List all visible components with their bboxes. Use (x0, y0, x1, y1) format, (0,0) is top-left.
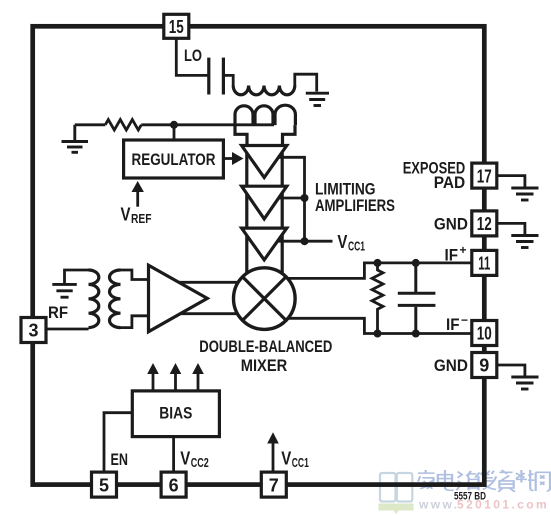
bias box (132, 391, 219, 437)
outer border (33, 26, 485, 484)
wire capacitor to primary winding (223, 75, 233, 85)
ground (pin 17) (511, 188, 538, 200)
inductor L1 primary winding (LO balun) (233, 86, 295, 95)
RF amplifier A4 (149, 265, 208, 332)
regulator U1 box (124, 140, 224, 178)
resistor R1 (105, 120, 141, 130)
svg-text:V: V (281, 449, 291, 469)
watermark book icon (380, 473, 412, 502)
svg-text:GND: GND (434, 356, 468, 375)
junction dot T3 tap (301, 237, 309, 245)
wire primary to ground (295, 74, 317, 91)
svg-text:9: 9 (479, 356, 489, 376)
bias output arrows (153, 370, 198, 391)
junction dots IF+ rail (374, 259, 382, 267)
pin 3 (21, 318, 46, 343)
BIAS wire VCC2 (172, 436, 175, 472)
svg-text:RF: RF (48, 303, 68, 322)
secondary winding outline to amplifier (235, 125, 295, 146)
junction dot T2 tap (301, 194, 309, 202)
wires RF secondary to amplifier (121, 270, 151, 328)
RF transformer primary winding (89, 270, 99, 328)
svg-text:MIXER: MIXER (241, 356, 288, 375)
ground (pin 9) (511, 377, 538, 389)
svg-text:6: 6 (169, 475, 179, 495)
pin 12 (472, 211, 497, 236)
wire resistor to transformer center tap (141, 123, 274, 126)
arrow regulator output to amplifier (223, 157, 235, 160)
pin 9 (472, 353, 497, 378)
RF transformer secondary winding (110, 270, 121, 328)
wire pin12 to ground (497, 223, 525, 234)
svg-text:IF: IF (445, 245, 459, 264)
svg-text:IF: IF (446, 315, 460, 334)
svg-text:5: 5 (99, 475, 109, 495)
pin 7 (261, 472, 286, 497)
junction node (regulator tap) (170, 121, 178, 129)
svg-text:−: − (461, 313, 468, 327)
capacitor C2 (IF load) (398, 263, 436, 334)
svg-text:11: 11 (478, 254, 490, 274)
mixer X (243, 277, 287, 321)
amplifier rails (247, 144, 282, 275)
tap T3 to VCC1 (272, 240, 333, 243)
svg-text:REF: REF (131, 212, 152, 226)
tap T1 to vcc line (270, 157, 305, 241)
watermark chinese text 家电维修资料网 (418, 470, 550, 492)
wire pin3 to RF transformer (44, 328, 89, 331)
wire pin15 to capacitor (176, 36, 208, 75)
pin 6 (161, 472, 186, 497)
watermark book base (379, 504, 414, 515)
limiting amplifier A1 (242, 146, 287, 178)
svg-text:LO: LO (184, 46, 202, 65)
ground (RF input) (52, 284, 77, 297)
limiting amplifier A3 (242, 228, 287, 260)
wire junction to regulator (173, 125, 176, 141)
wire pin9 to ground (497, 365, 525, 376)
svg-text:V: V (121, 205, 131, 225)
wire ground to resistor (75, 123, 106, 126)
svg-text:17: 17 (477, 166, 492, 186)
mixer circle (233, 268, 295, 330)
svg-text:LIMITING: LIMITING (315, 181, 376, 199)
pin 15 (164, 14, 189, 38)
wire pin17 to ground (497, 176, 525, 187)
svg-text:V: V (180, 449, 190, 469)
pin 17 (472, 163, 497, 188)
capacitor C1 (LO coupling) (209, 58, 224, 95)
inductor L2 secondary winding (LO balun) (235, 105, 295, 125)
wires mixer to IF network (286, 263, 471, 334)
resistor R2 (IF load) (372, 263, 383, 334)
svg-text:3: 3 (28, 321, 38, 341)
svg-text:REGULATOR: REGULATOR (132, 150, 216, 169)
pin 10 (472, 321, 497, 346)
svg-text:EN: EN (111, 450, 129, 469)
svg-text:CC2: CC2 (191, 456, 209, 470)
limiting amplifier A2 (242, 186, 287, 219)
ground (regulator input) (62, 125, 89, 153)
arrow VREF input (136, 188, 139, 207)
svg-text:7: 7 (269, 475, 279, 495)
wire RF primary to ground (65, 270, 89, 283)
pin 5 (92, 472, 117, 497)
svg-text:CC1: CC1 (348, 240, 365, 254)
ground (pin 12) (511, 236, 538, 248)
svg-text:+: + (460, 243, 467, 257)
svg-text:BIAS: BIAS (159, 404, 192, 423)
svg-text:CC1: CC1 (292, 456, 309, 470)
svg-text:15: 15 (169, 17, 184, 37)
junction dots IF- rail (374, 330, 382, 338)
svg-text:DOUBLE-BALANCED: DOUBLE-BALANCED (199, 337, 332, 356)
svg-text:10: 10 (477, 324, 492, 344)
svg-text:AMPLIFIERS: AMPLIFIERS (315, 197, 395, 215)
arrow VCC1 (pin 7) (272, 440, 275, 472)
svg-text:5557 BD: 5557 BD (454, 490, 486, 502)
svg-text:PAD: PAD (434, 173, 466, 192)
wires RF amplifier to mixer (165, 282, 242, 313)
pin 11 (472, 250, 497, 275)
BIAS wires EN (104, 413, 132, 472)
tap T2 (272, 197, 305, 200)
ground (LO balun) (306, 93, 329, 105)
svg-text:12: 12 (477, 214, 492, 234)
svg-text:V: V (337, 232, 347, 252)
watermark url www.520101.com (418, 498, 549, 512)
svg-text:GND: GND (434, 215, 468, 234)
